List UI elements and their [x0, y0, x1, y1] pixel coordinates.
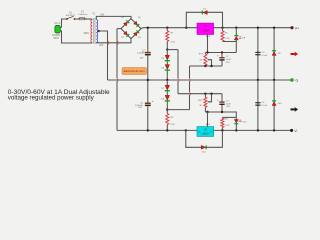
svg-text:ElecCircuit.com: ElecCircuit.com: [124, 70, 145, 73]
svg-text:0.1uF: 0.1uF: [262, 55, 268, 57]
svg-text:220V: 220V: [84, 33, 90, 35]
svg-text:0.5A Fuse: 0.5A Fuse: [78, 13, 88, 16]
svg-text:VO: VO: [210, 131, 213, 133]
svg-text:50V: 50V: [140, 57, 144, 59]
svg-text:V+: V+: [295, 26, 300, 30]
svg-text:ADJ: ADJ: [206, 123, 210, 126]
svg-text:1.2K: 1.2K: [225, 38, 230, 40]
svg-text:50V: 50V: [227, 106, 231, 108]
svg-text:50V: 50V: [226, 62, 230, 64]
svg-text:2.2K: 2.2K: [170, 124, 175, 126]
svg-text:LM337: LM337: [201, 132, 209, 135]
svg-text:10uF: 10uF: [226, 103, 232, 105]
svg-text:+: +: [152, 99, 154, 103]
svg-text:50V: 50V: [138, 107, 142, 109]
svg-text:AC in: AC in: [54, 22, 61, 25]
svg-text:1.2K: 1.2K: [225, 125, 230, 127]
svg-text:G: G: [295, 79, 298, 83]
svg-text:AC220V: AC220V: [52, 34, 61, 37]
svg-text:LM317: LM317: [201, 29, 209, 32]
svg-text:2.2K: 2.2K: [170, 41, 175, 43]
svg-text:VO: VO: [210, 28, 213, 30]
svg-text:0.1uF: 0.1uF: [262, 105, 268, 107]
svg-text:1,000uF: 1,000uF: [137, 52, 146, 54]
svg-text:voltage regulated power supply: voltage regulated power supply: [8, 95, 95, 102]
svg-text:24V: 24V: [99, 45, 104, 47]
svg-text:50Hz: 50Hz: [54, 38, 60, 40]
svg-text:10uF: 10uF: [226, 59, 232, 61]
svg-text:SW-SPST: SW-SPST: [66, 15, 76, 17]
